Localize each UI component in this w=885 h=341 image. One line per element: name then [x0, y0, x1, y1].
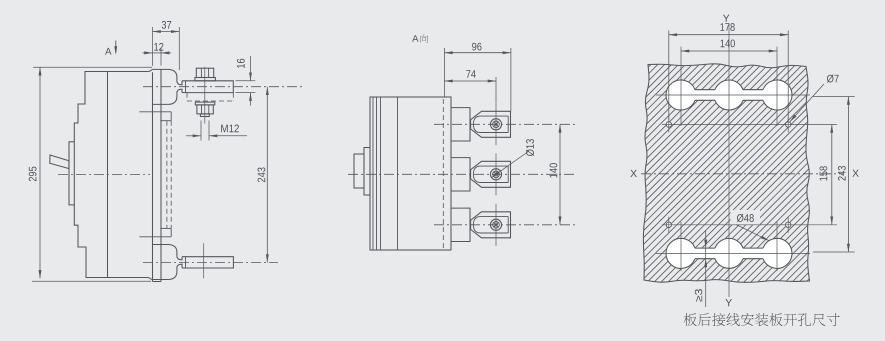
left view: breaker body outline (side view) — [74, 72, 151, 281]
dimension 16 — [236, 56, 256, 106]
dimension 178 — [669, 23, 788, 120]
dimension diameter 7 — [790, 75, 839, 122]
mounting plate with hatching — [600, 0, 885, 341]
left view: top terminal hidden slot (dashed) — [187, 93, 233, 101]
small mounting holes 7 dia — [666, 117, 791, 233]
plate row horizontal centerlines — [656, 95, 810, 253]
dimension 140 plate — [681, 40, 777, 53]
dimension diameter 48 with leader — [731, 210, 770, 241]
middle view: hidden rear plane (dashed) — [442, 99, 444, 248]
middle view: pole 1 centerline — [434, 123, 575, 125]
Y axis centerline — [728, 24, 730, 297]
dimension M12 — [186, 121, 247, 141]
plate vertical column lines — [681, 47, 777, 272]
middle view: A-direction label — [412, 34, 428, 42]
dimension 158 — [820, 125, 834, 225]
middle view: pole 3 centerline — [434, 224, 575, 226]
dimension 295 left — [29, 67, 152, 281]
left view: bottom terminal centerline — [143, 262, 278, 264]
left view: rear mounting flange plate — [149, 69, 161, 281]
left view: rear strap upper block — [139, 112, 171, 121]
left view: top terminal boss — [152, 69, 182, 104]
dimension 12 — [143, 43, 172, 66]
dimension 243 plate — [813, 97, 855, 253]
left view: top terminal rod — [182, 81, 233, 93]
left view: bottom terminal rod — [182, 257, 233, 268]
left view: horizontal centerline of body — [58, 174, 150, 176]
left view: top terminal upper nut M12 — [196, 68, 213, 77]
middle view: terminal lug pole 1 — [451, 103, 511, 145]
left view: rear strap lower block — [139, 228, 171, 236]
label Y bottom — [725, 299, 731, 306]
dimension 37 — [153, 21, 180, 70]
left view: terminal stud axis — [204, 67, 206, 124]
left view: bottom terminal boss — [152, 245, 182, 280]
left view: operating handle — [50, 155, 69, 169]
label Y top — [723, 15, 729, 22]
left view: rear strap hidden edges (dashed) — [167, 121, 171, 229]
dimension 74 — [444, 70, 496, 103]
dimension >=3 slot edge distance — [695, 231, 707, 308]
left view: stud collar — [200, 114, 209, 117]
middle view: terminal lug pole 3 — [451, 204, 511, 246]
X axis centerline — [641, 173, 843, 175]
caption: rear-connection mounting plate hole dimensions — [684, 313, 840, 326]
left view: top terminal upper washer — [195, 78, 216, 81]
left view: bottom stud axis — [203, 243, 205, 278]
label X left — [630, 170, 636, 177]
plate cutout slots bottom row (3 joined 48 dia holes) — [666, 238, 792, 268]
middle view: shaft boss outer — [354, 154, 364, 188]
middle view: terminal lug pole 2 — [451, 153, 511, 195]
dimension 96 — [444, 43, 511, 112]
middle view: cover plate lines — [373, 97, 398, 250]
plate horizontal hole-row lines — [662, 125, 837, 225]
middle view: shaft boss inner — [364, 148, 370, 196]
middle view: body rectangle — [370, 97, 451, 250]
left view: handle escutcheon strip — [69, 142, 74, 205]
dimension 243 left view — [258, 87, 269, 263]
left view: top terminal lower nut — [197, 105, 213, 114]
left view: case parting line — [107, 72, 109, 278]
dimension diameter 13 — [492, 139, 535, 177]
left view: top terminal centerline — [143, 86, 303, 88]
middle view: main centerline — [348, 173, 575, 175]
left view: top terminal lower washer — [195, 102, 215, 105]
label X right — [852, 170, 858, 177]
plate cutout slots top row (3 joined 48 dia holes) — [666, 80, 792, 110]
dimension 140 middle view — [550, 124, 562, 225]
label A with arrow — [105, 41, 117, 55]
